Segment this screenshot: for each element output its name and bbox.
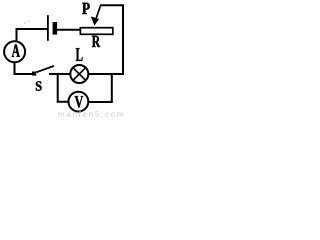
rheostat value label R — [92, 36, 100, 47]
rheostat R body — [80, 28, 112, 35]
slider P arrow — [91, 5, 101, 26]
battery B1 short thick plate (negative) — [53, 22, 58, 35]
lamp L1 — [70, 65, 88, 83]
node junction and wire to voltmeter right side — [89, 73, 112, 102]
wire battery to rheostat left terminal — [57, 29, 82, 31]
wire node to voltmeter left side — [58, 73, 68, 102]
label L (lamp) — [76, 48, 83, 61]
label P (slider) — [82, 3, 90, 14]
battery B1 long plate (positive) — [47, 15, 49, 41]
label S (switch) — [36, 81, 42, 91]
switch S lever (open) — [36, 66, 54, 72]
faint speck artifacts top-left — [24, 20, 30, 24]
wire switch to lamp left — [49, 73, 70, 75]
svg-text:manfen5.com: manfen5.com — [58, 110, 125, 119]
voltmeter V — [69, 92, 89, 112]
switch S fixed contact — [32, 72, 36, 76]
wire ammeter bottom to switch — [15, 63, 33, 74]
ammeter A — [4, 41, 25, 62]
wire slider to top-right corner and down right side — [100, 5, 123, 74]
wire top-left corner to battery positive — [17, 29, 48, 41]
wire lamp right to right-side corner — [89, 73, 124, 75]
